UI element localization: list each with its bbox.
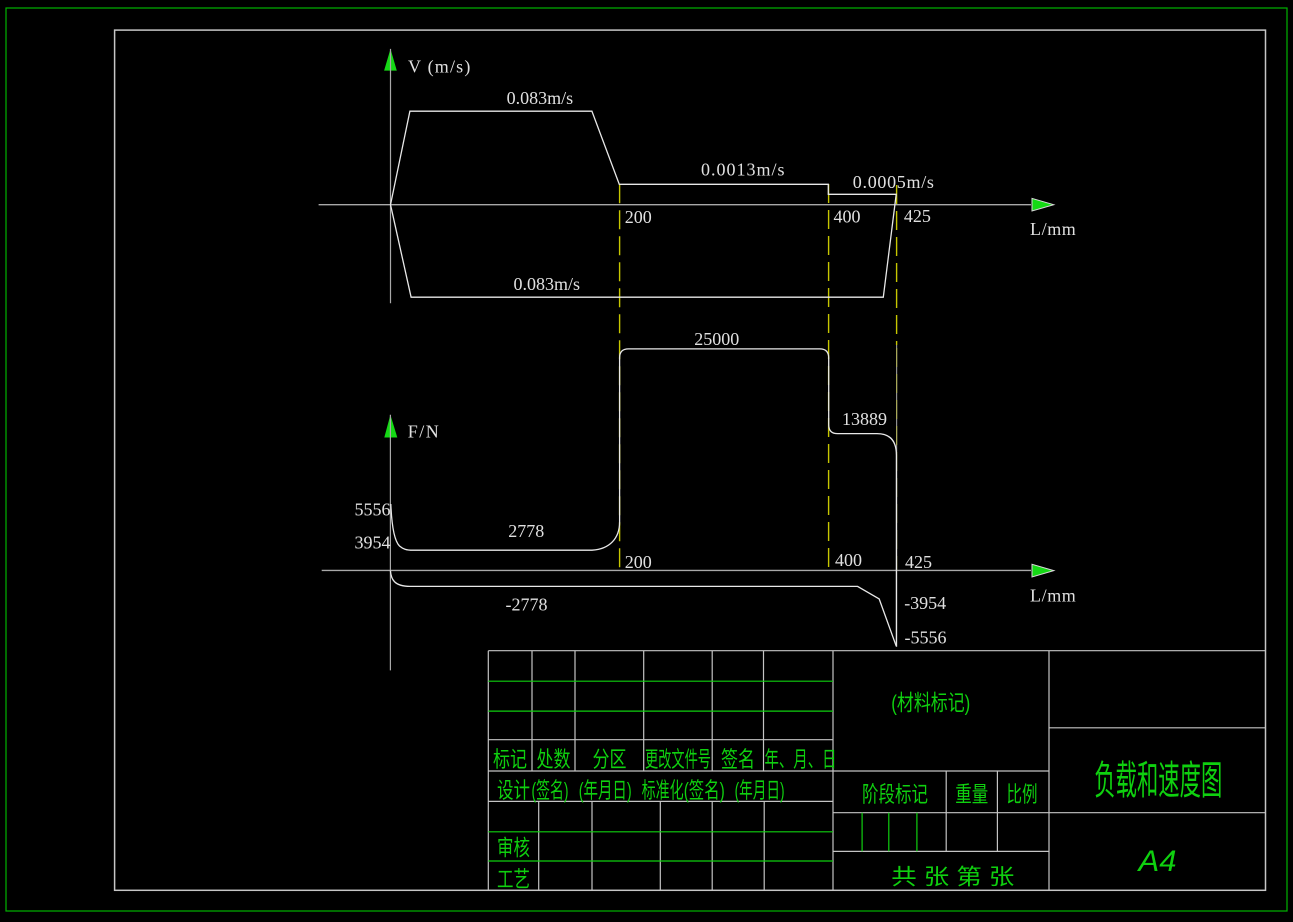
svg-text:-3954: -3954 — [904, 593, 946, 613]
svg-text:2778: 2778 — [508, 521, 544, 541]
dashed line 200 — [619, 184, 621, 570]
svg-text:L/mm: L/mm — [1030, 586, 1076, 606]
svg-text:0.083m/s: 0.083m/s — [507, 88, 574, 108]
svg-text:A4: A4 — [1136, 845, 1176, 878]
col line 833 — [832, 651, 834, 891]
svg-text:-5556: -5556 — [905, 628, 947, 648]
positive force curve — [391, 349, 897, 646]
green row line 2 — [488, 710, 833, 712]
green row line 4 — [488, 860, 833, 862]
bottom x axis arrow — [1032, 564, 1054, 577]
negative force curve — [390, 570, 896, 646]
svg-text:L/mm: L/mm — [1030, 219, 1076, 239]
svg-text:共 张 第 张: 共 张 第 张 — [891, 865, 1014, 890]
svg-text:更改文件号: 更改文件号 — [645, 747, 711, 772]
svg-text:标准化: 标准化 — [642, 778, 684, 803]
svg-text:200: 200 — [625, 552, 652, 572]
right col split — [1049, 727, 1266, 729]
svg-text:标记: 标记 — [493, 747, 527, 772]
svg-text:0.083m/s: 0.083m/s — [514, 274, 581, 294]
svg-text:25000: 25000 — [694, 329, 739, 349]
svg-text:F/N: F/N — [408, 422, 441, 442]
svg-text:3954: 3954 — [355, 533, 391, 553]
row line under jieduan — [833, 812, 1266, 814]
svg-text:400: 400 — [834, 207, 861, 227]
svg-text:比例: 比例 — [1007, 782, 1038, 807]
dashed line 425 lower pale — [896, 348, 898, 570]
svg-text:200: 200 — [625, 207, 652, 227]
svg-text:(年月日): (年月日) — [579, 778, 632, 803]
F axis arrow — [384, 415, 397, 438]
bottom x axis — [322, 569, 1031, 571]
svg-text:工艺: 工艺 — [497, 867, 530, 892]
green tick 3 — [916, 813, 918, 852]
dashed line 425 — [896, 185, 898, 345]
V axis arrow — [384, 49, 397, 71]
svg-text:5556: 5556 — [355, 500, 391, 520]
zhongliang col — [945, 771, 947, 851]
svg-text:(年月日): (年月日) — [735, 778, 785, 803]
col line 1049 — [1048, 651, 1050, 891]
svg-text:-2778: -2778 — [506, 595, 548, 615]
svg-text:负载和速度图: 负载和速度图 — [1094, 759, 1222, 803]
svg-text:425: 425 — [905, 552, 932, 572]
svg-text:分区: 分区 — [593, 747, 627, 772]
svg-text:V (m/s): V (m/s) — [408, 57, 472, 78]
V axis — [390, 49, 392, 303]
svg-text:(材料标记): (材料标记) — [891, 691, 970, 716]
svg-text:(签名): (签名) — [532, 778, 569, 803]
svg-text:425: 425 — [904, 206, 931, 226]
svg-text:13889: 13889 — [842, 409, 887, 429]
F axis — [389, 415, 391, 671]
dashed line 400 — [828, 184, 830, 570]
green row line 1 — [488, 680, 833, 682]
svg-text:设计: 设计 — [497, 778, 530, 803]
title block top line — [488, 650, 1265, 652]
green tick 1 — [861, 813, 863, 852]
svg-text:0.0005m/s: 0.0005m/s — [853, 172, 935, 192]
bottom section col lines — [538, 801, 540, 890]
row line under biaoji — [488, 770, 1049, 772]
svg-text:重量: 重量 — [955, 782, 988, 807]
svg-text:年、月、日: 年、月、日 — [765, 747, 837, 772]
row line under ticks — [833, 850, 1049, 852]
svg-text:(签名): (签名) — [684, 778, 725, 803]
bili col — [996, 771, 998, 851]
row line under sheji — [488, 800, 833, 802]
svg-text:0.0013m/s: 0.0013m/s — [701, 160, 786, 180]
gray extension line 425 — [896, 345, 898, 647]
svg-text:审核: 审核 — [497, 836, 530, 861]
left table row line — [488, 739, 833, 741]
svg-text:400: 400 — [835, 550, 862, 570]
top x axis — [319, 204, 1031, 206]
svg-text:阶段标记: 阶段标记 — [862, 782, 928, 807]
top x axis arrow — [1032, 198, 1054, 211]
top section col lines — [531, 651, 533, 771]
svg-text:处数: 处数 — [537, 747, 571, 772]
svg-text:签名: 签名 — [721, 747, 755, 772]
velocity profile — [391, 111, 897, 297]
title block left edge — [487, 651, 489, 891]
green row line 3 — [488, 831, 833, 833]
green tick 2 — [888, 813, 890, 852]
